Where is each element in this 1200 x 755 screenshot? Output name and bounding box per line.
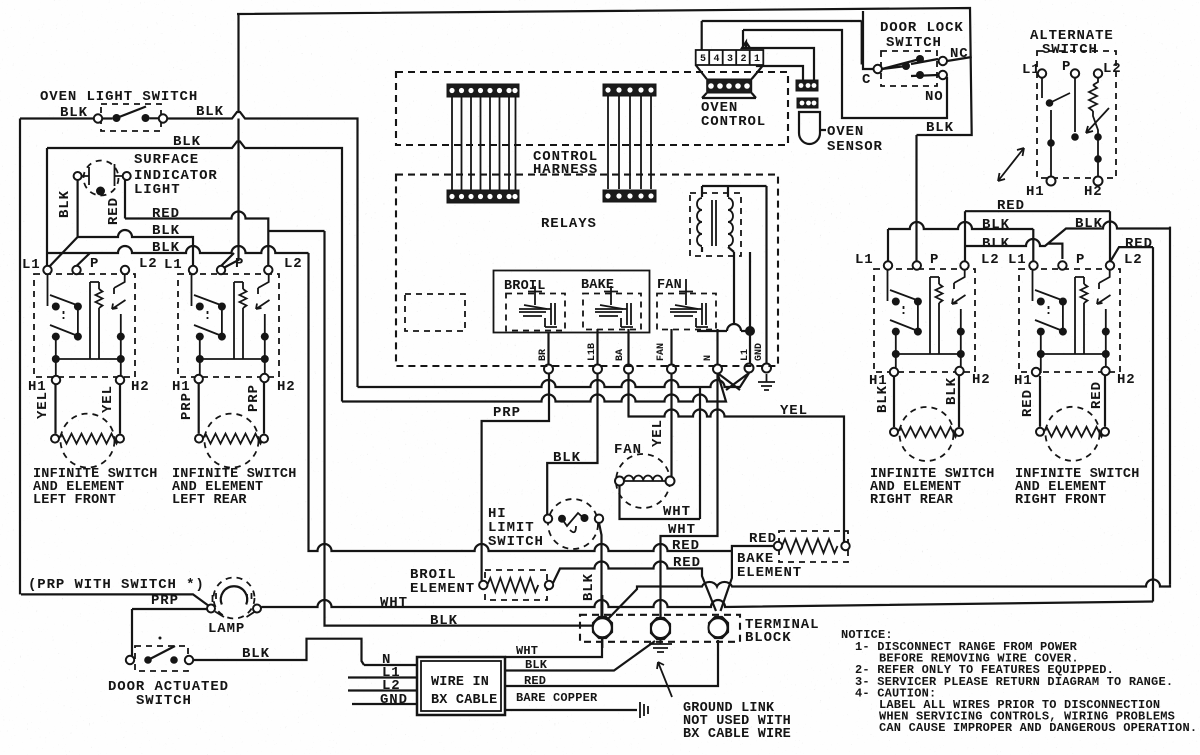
svg-text:N: N [703, 355, 714, 361]
svg-text:BLK: BLK [926, 120, 954, 136]
svg-text:OVEN: OVEN [827, 124, 864, 140]
svg-text:WHT: WHT [380, 595, 408, 611]
svg-text:RED: RED [997, 198, 1025, 214]
svg-text:BLK: BLK [982, 217, 1010, 233]
svg-text:C: C [862, 72, 871, 88]
svg-text:WHT: WHT [516, 644, 538, 658]
svg-text:H2: H2 [1084, 184, 1103, 200]
svg-text:NC: NC [950, 46, 969, 62]
svg-text:P: P [235, 256, 244, 272]
svg-text:FAN: FAN [614, 442, 642, 458]
svg-text:BX CABLE WIRE: BX CABLE WIRE [683, 727, 791, 742]
svg-text:PRP: PRP [246, 384, 262, 412]
svg-text:4: 4 [714, 54, 720, 65]
svg-text:BLK: BLK [57, 190, 73, 218]
svg-text:RED: RED [1125, 236, 1153, 252]
svg-text:(PRP WITH SWITCH *): (PRP WITH SWITCH *) [28, 577, 205, 593]
svg-text:RED: RED [672, 538, 700, 554]
svg-text:BAKE: BAKE [581, 278, 614, 293]
svg-text:LAMP: LAMP [208, 621, 245, 637]
svg-text:RED: RED [673, 555, 701, 571]
svg-text:YEL: YEL [35, 391, 51, 419]
svg-text:RED: RED [1089, 381, 1105, 409]
svg-text:H2: H2 [131, 379, 150, 395]
svg-text:BLK: BLK [152, 223, 180, 239]
svg-text:L2: L2 [1124, 252, 1143, 268]
svg-text:RED: RED [152, 206, 180, 222]
svg-text:BLK: BLK [60, 105, 88, 121]
svg-text:BARE COPPER: BARE COPPER [516, 691, 598, 705]
svg-text:1: 1 [754, 54, 760, 65]
svg-text:SWITCH: SWITCH [136, 693, 192, 709]
svg-text:BLK: BLK [173, 134, 201, 150]
svg-text:GND: GND [380, 692, 408, 708]
svg-text:RED: RED [524, 674, 546, 688]
svg-text:LIGHT: LIGHT [134, 182, 181, 198]
svg-text:CAN CAUSE IMPROPER AND DANGERO: CAN CAUSE IMPROPER AND DANGEROUS OPERATI… [879, 721, 1197, 735]
svg-text:YEL: YEL [780, 403, 808, 419]
svg-text:WHT: WHT [663, 504, 691, 520]
svg-text:RED: RED [749, 531, 777, 547]
svg-text:BLK: BLK [944, 377, 960, 405]
svg-text:WHT: WHT [668, 522, 696, 538]
svg-text:H2: H2 [1117, 372, 1136, 388]
svg-text:SWITCH: SWITCH [488, 534, 544, 550]
svg-text:BR: BR [538, 349, 549, 361]
svg-text:GND: GND [754, 343, 765, 361]
svg-text:L1: L1 [1008, 252, 1027, 268]
svg-text:BA: BA [615, 349, 626, 361]
svg-text:RED: RED [1020, 389, 1036, 417]
svg-text:L1: L1 [22, 257, 41, 273]
svg-text:FAN: FAN [657, 278, 682, 293]
svg-text:WIRE IN: WIRE IN [431, 675, 489, 690]
svg-text:SURFACE: SURFACE [134, 152, 199, 168]
svg-text:BROIL: BROIL [504, 279, 546, 294]
svg-text:L2: L2 [1103, 61, 1122, 77]
svg-text:L1B: L1B [587, 343, 598, 361]
svg-text:RED: RED [106, 197, 122, 225]
svg-text:P: P [1062, 59, 1071, 75]
svg-text:BLK: BLK [553, 450, 581, 466]
svg-text:SWITCH: SWITCH [1042, 42, 1098, 58]
svg-text:SENSOR: SENSOR [827, 139, 883, 155]
svg-text:3: 3 [727, 54, 733, 65]
svg-text:BLK: BLK [196, 104, 224, 120]
svg-text:NO: NO [925, 89, 944, 105]
svg-text:BLK: BLK [982, 236, 1010, 252]
svg-text:CONTROL: CONTROL [701, 114, 766, 130]
svg-text:ELEMENT: ELEMENT [410, 581, 475, 597]
svg-text:L1: L1 [1022, 62, 1041, 78]
svg-text:PRP: PRP [493, 405, 521, 421]
svg-text:P: P [1076, 252, 1085, 268]
svg-text:RELAYS: RELAYS [541, 216, 597, 232]
svg-text:HARNESS: HARNESS [533, 162, 598, 178]
svg-text:BLK: BLK [581, 573, 597, 601]
svg-text:ELEMENT: ELEMENT [737, 565, 802, 581]
svg-text:BLOCK: BLOCK [745, 630, 792, 646]
svg-text:RIGHT FRONT: RIGHT FRONT [1015, 493, 1106, 508]
svg-text:BLK: BLK [525, 658, 548, 672]
svg-text:LEFT REAR: LEFT REAR [172, 493, 247, 508]
svg-text:H2: H2 [277, 379, 296, 395]
svg-text:BLK: BLK [1075, 216, 1103, 232]
svg-text:H1: H1 [1014, 373, 1033, 389]
svg-text:L2: L2 [981, 252, 1000, 268]
svg-text:P: P [930, 252, 939, 268]
svg-text:YEL: YEL [650, 419, 666, 447]
svg-text:H2: H2 [972, 372, 991, 388]
svg-text:L1: L1 [855, 252, 874, 268]
svg-text:LEFT FRONT: LEFT FRONT [33, 493, 116, 508]
svg-text:BX CABLE: BX CABLE [431, 693, 497, 708]
svg-text:5: 5 [700, 54, 706, 65]
svg-text:RIGHT REAR: RIGHT REAR [870, 493, 954, 508]
svg-text:DOOR LOCK: DOOR LOCK [880, 20, 964, 36]
svg-text:PRP: PRP [179, 392, 195, 420]
svg-text:FAN: FAN [656, 343, 667, 361]
svg-text:L2: L2 [284, 256, 303, 272]
svg-text:BLK: BLK [875, 385, 891, 413]
svg-text:L1: L1 [164, 257, 183, 273]
svg-text:L2: L2 [139, 256, 158, 272]
svg-text:BLK: BLK [242, 646, 270, 662]
svg-text:L1: L1 [740, 349, 751, 361]
svg-text:2: 2 [741, 54, 747, 65]
svg-text:P: P [90, 256, 99, 272]
svg-text:PRP: PRP [151, 593, 179, 609]
svg-text:OVEN LIGHT SWITCH: OVEN LIGHT SWITCH [40, 89, 198, 105]
svg-text:BLK: BLK [152, 240, 180, 256]
svg-text:SWITCH: SWITCH [886, 35, 942, 51]
svg-text:H1: H1 [1026, 184, 1045, 200]
svg-text:BLK: BLK [430, 613, 458, 629]
svg-text:YEL: YEL [100, 385, 116, 413]
